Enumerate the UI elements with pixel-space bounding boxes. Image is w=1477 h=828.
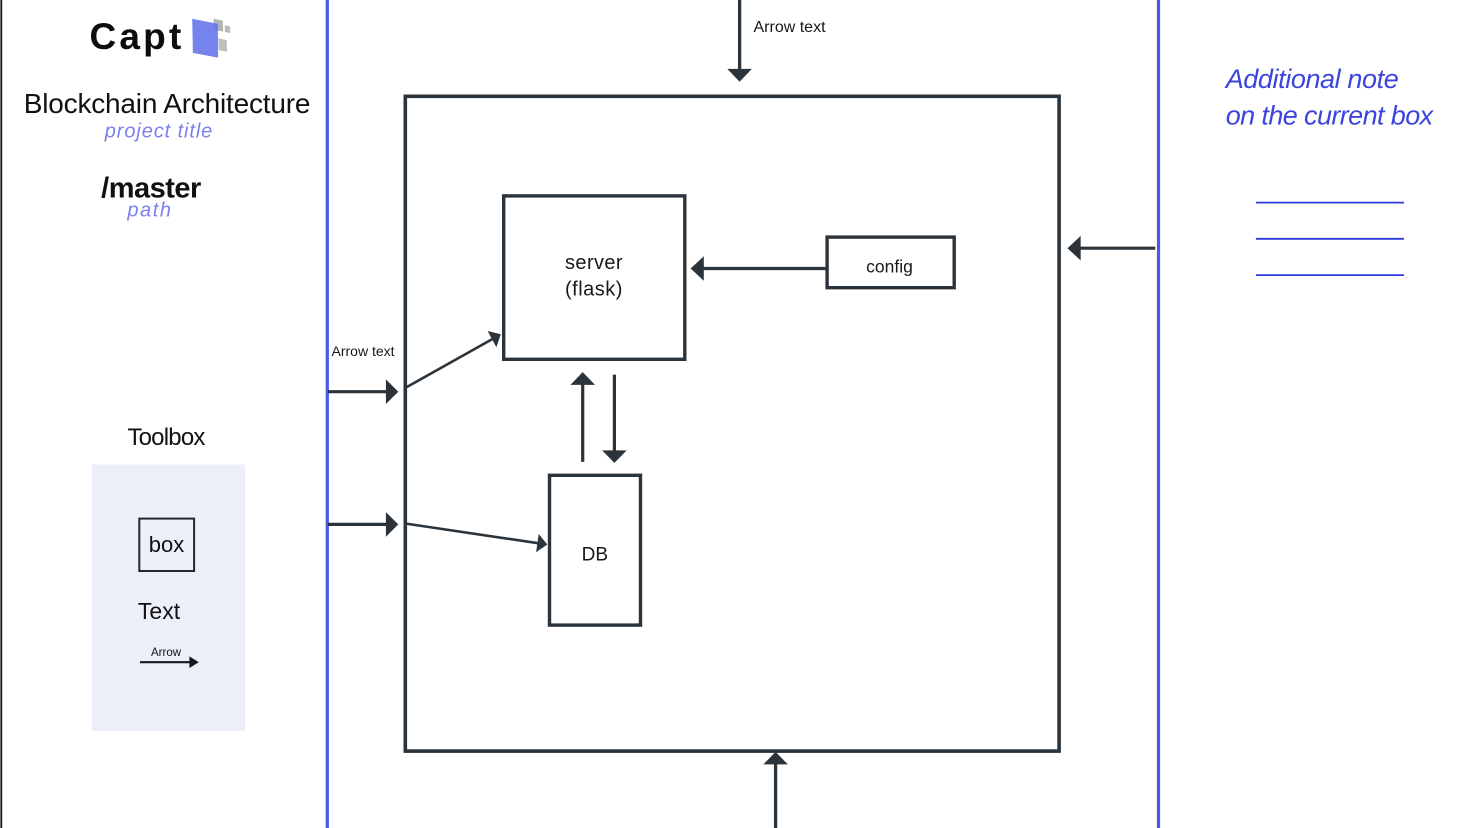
left frame border [0, 0, 2, 828]
svg-text:path: path [126, 200, 172, 222]
divider line (right, blue) [1157, 0, 1160, 828]
server box [504, 196, 685, 359]
svg-text:Arrow: Arrow [151, 647, 182, 659]
note ruled line 1 [1256, 202, 1404, 204]
note ruled line 3 [1256, 274, 1404, 276]
svg-text:server: server [565, 252, 623, 274]
svg-text:Arrow text: Arrow text [332, 343, 395, 359]
note ruled line 2 [1256, 238, 1404, 240]
arrow into bottom of big box [763, 752, 788, 828]
arrow into top of big box [727, 0, 752, 82]
svg-text:on the current box: on the current box [1226, 100, 1435, 130]
wire diagonal to DB box with arrowhead [406, 524, 547, 553]
wire diagonal to server box with arrowhead [406, 331, 501, 388]
svg-text:Capt: Capt [89, 16, 184, 57]
DB box [550, 475, 641, 625]
svg-text:Arrow text: Arrow text [754, 19, 827, 36]
config box [827, 237, 954, 288]
left arrow 1 (into big box, upper) [328, 379, 398, 404]
svg-text:config: config [866, 257, 913, 277]
logo icon blue parallelogram [192, 19, 218, 58]
arrow DB to server (upward) [570, 372, 595, 462]
svg-text:DB: DB [582, 545, 608, 566]
toolbox arrow tool glyph [140, 656, 199, 668]
logo icon gray small square [225, 25, 230, 33]
svg-text:Additional note: Additional note [1224, 64, 1399, 94]
arrow from right into big box [1068, 236, 1156, 261]
left arrow 2 (into big box, lower) [328, 512, 398, 537]
logo icon gray quad bottom [218, 38, 227, 51]
arrow server to DB (downward) [602, 375, 627, 463]
divider line (left, blue) [326, 0, 329, 828]
svg-text:(flask): (flask) [565, 279, 623, 301]
toolbox box tool [139, 519, 194, 571]
svg-text:Text: Text [138, 598, 181, 624]
svg-text:project title: project title [104, 121, 213, 143]
toolbox panel [92, 465, 245, 731]
canvas outer big box [405, 96, 1059, 751]
svg-text:Blockchain Architecture: Blockchain Architecture [24, 88, 310, 119]
svg-text:Toolbox: Toolbox [127, 424, 205, 451]
logo icon gray quad top [214, 19, 224, 32]
svg-text:box: box [149, 532, 184, 557]
arrow from config to server [691, 256, 826, 281]
